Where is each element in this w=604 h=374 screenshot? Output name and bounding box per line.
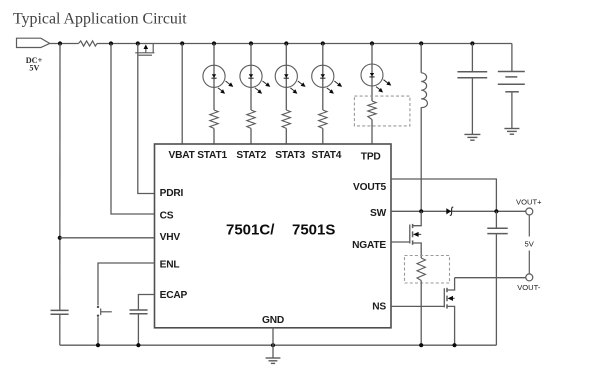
- svg-text:CS: CS: [160, 211, 174, 222]
- wire VOUT5 branch: [391, 179, 496, 211]
- svg-text:7501S: 7501S: [292, 222, 335, 239]
- node SW/C5 junction: [494, 209, 498, 213]
- LED D5 branch (TPD): [361, 41, 391, 101]
- svg-text:PDRI: PDRI: [160, 188, 184, 199]
- capacitor C1 (left, on x=59.5): [51, 310, 69, 314]
- wire left outer vertical (x=59.5): [59, 44, 61, 346]
- wire NS: [391, 305, 444, 307]
- inductor L1: [421, 44, 427, 212]
- resistor R4 (STAT3): [282, 110, 290, 144]
- svg-text:VOUT+: VOUT+: [516, 198, 542, 207]
- wire PDRI / Q1 gate: [138, 44, 155, 194]
- pin label STAT2: [236, 150, 266, 161]
- pin label TPD: [361, 152, 381, 163]
- svg-text:STAT4: STAT4: [312, 150, 342, 161]
- wire VHV: [60, 237, 155, 239]
- diode D6 (schottky on SW): [446, 207, 453, 215]
- svg-text:VOUT5: VOUT5: [353, 182, 386, 193]
- svg-text:NS: NS: [372, 302, 386, 313]
- op chip U1 box: [155, 144, 392, 328]
- node: bottom junction ENL: [96, 343, 100, 347]
- wire CS branch: [111, 44, 155, 215]
- transistor Q2 (NMOS upper): [410, 211, 421, 258]
- node: bottom junction ECAP: [136, 343, 140, 347]
- capacitor C5 (output): [487, 211, 507, 345]
- transistor Q3 (NMOS lower): [444, 278, 454, 346]
- pin label VOUT5: [353, 182, 386, 193]
- svg-text:5V: 5V: [29, 63, 39, 72]
- switch S1 (on ENL branch): [97, 306, 112, 317]
- wire VOUT- to Q3: [455, 277, 527, 279]
- pin label STAT4: [312, 150, 342, 161]
- pin label STAT1: [197, 150, 227, 161]
- pin label NGATE: [352, 240, 386, 251]
- node: bottom junction Q3: [452, 343, 456, 347]
- node: bottom junction GND: [271, 343, 275, 347]
- svg-text:NGATE: NGATE: [352, 240, 386, 251]
- svg-text:5V: 5V: [525, 240, 535, 249]
- svg-text:GND: GND: [262, 315, 284, 326]
- LED D2 branch: [240, 41, 270, 110]
- resistor R1: [79, 41, 98, 46]
- svg-text:VHV: VHV: [160, 232, 181, 243]
- chip part number 7501C/: [226, 222, 275, 239]
- wire 5V between terminals: [522, 215, 537, 274]
- wire top rail: [50, 43, 512, 45]
- transistor Q1 (P-MOSFET on top rail): [135, 44, 154, 56]
- node VOUT+ terminal: [516, 198, 542, 215]
- node: rail junction L1: [419, 41, 423, 45]
- wire GND stub: [272, 327, 274, 358]
- node: bottom junction R7: [419, 343, 423, 347]
- pin label GND: [262, 315, 284, 326]
- ground (GND): [266, 358, 281, 363]
- LED D3 branch: [275, 41, 305, 110]
- node: rail junction Q1: [136, 41, 140, 45]
- wire ECAP branch: [138, 295, 154, 346]
- LED D1 branch: [203, 41, 233, 110]
- ground (C4): [464, 134, 480, 140]
- wire VBAT: [181, 44, 183, 145]
- node: rail junction CS branch: [109, 41, 113, 45]
- pin label PDRI: [160, 188, 184, 199]
- title: [13, 11, 187, 28]
- resistor R5 (STAT4): [319, 110, 327, 144]
- svg-text:TPD: TPD: [361, 152, 381, 163]
- resistor R7 (in dashed box): [417, 258, 425, 345]
- svg-text:SW: SW: [370, 208, 387, 219]
- svg-text:VOUT-: VOUT-: [517, 283, 541, 292]
- resistor R2 (STAT1): [210, 110, 218, 144]
- svg-text:STAT3: STAT3: [275, 150, 305, 161]
- svg-text:ENL: ENL: [160, 260, 180, 271]
- node VOUT- terminal: [517, 274, 541, 292]
- pin label STAT3: [275, 150, 305, 161]
- pin label VBAT: [169, 150, 196, 161]
- node: rail junction C4: [470, 41, 474, 45]
- ground (battery): [504, 129, 519, 135]
- connector J1 DC+5V: [17, 38, 50, 72]
- capacitor C4 (to GND, top right): [457, 44, 487, 135]
- svg-text:Typical Application Circuit: Typical Application Circuit: [13, 11, 187, 28]
- capacitor C2 (ECAP): [130, 310, 148, 314]
- node: rail junction VBAT: [180, 41, 184, 45]
- svg-text:ECAP: ECAP: [160, 290, 188, 301]
- pin label VHV: [160, 232, 181, 243]
- wire NGATE: [391, 241, 410, 243]
- pin label ENL: [160, 260, 180, 271]
- svg-text:STAT2: STAT2: [236, 150, 266, 161]
- resistor R3 (STAT2): [247, 110, 255, 144]
- chip part number 7501S: [292, 222, 335, 239]
- battery B1 (top right): [498, 44, 525, 129]
- dashed box TPD: [354, 96, 410, 126]
- pin label NS: [372, 302, 386, 313]
- pin label CS: [160, 211, 174, 222]
- wire bottom rail: [60, 344, 497, 346]
- wire ENL branch: [98, 263, 155, 345]
- svg-text:7501C/: 7501C/: [226, 222, 275, 239]
- wire SW line: [391, 210, 526, 212]
- node SW/L1 junction: [419, 209, 423, 213]
- pin label SW: [370, 208, 387, 219]
- LED D4 branch: [312, 41, 342, 110]
- node: rail junction at connector: [58, 41, 62, 45]
- node VHV junction: [58, 236, 62, 240]
- resistor R6 (TPD): [368, 101, 376, 144]
- dashed box NS resistor: [405, 256, 450, 284]
- pin label ECAP: [160, 290, 188, 301]
- svg-text:STAT1: STAT1: [197, 150, 227, 161]
- svg-text:VBAT: VBAT: [169, 150, 196, 161]
